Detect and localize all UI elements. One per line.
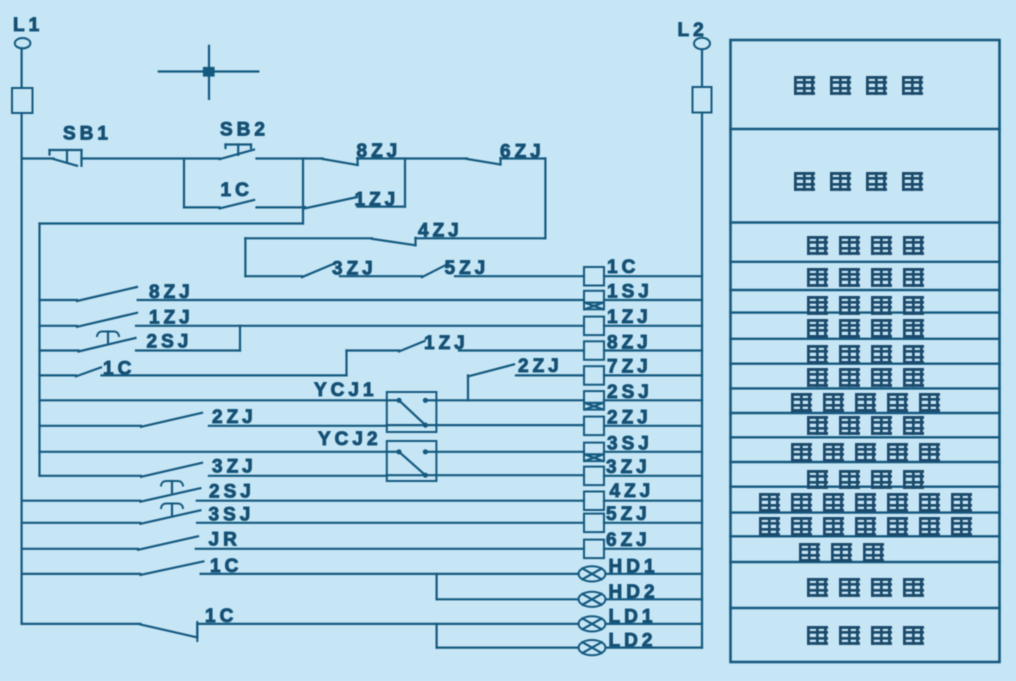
crosshair cursor mark [159,70,258,72]
time-delay marker of coil 3SJ [585,453,604,455]
fuse FU2 on L2 rail [693,87,712,113]
wire 2SJ short rung from rail2 [40,349,79,351]
wire vertical 4ZJ rung to 3ZJ-5ZJ rung [244,238,246,276]
delay actuator of 2SJ contact [97,332,119,337]
wire 1C lamp rung from L1 rail [22,573,141,575]
wire coil 3SJ to L2 rail [604,451,702,453]
wire rung1 SB1 to SB2 [82,157,220,159]
wire 2ZJ contact to YCJ1 box [209,425,387,427]
contact 8ZJ (NC) blade [323,159,358,165]
contact 4ZJ (NC) blade [372,239,416,246]
contact 3ZJ rung (NO) blade [141,463,202,477]
contact 8ZJ rung 1SJ (NO) blade [77,287,137,301]
YCJ1 internal lower wire [387,424,426,426]
table row separator 1 [731,128,1000,130]
table row separator 15 [731,561,1000,563]
wire coil 4ZJ to L2 rail [604,500,702,502]
YCJ2 terminal dots and blade [396,449,401,454]
indicator lamp HD2 [579,592,606,607]
wire 1C rung from rail2 [40,374,77,376]
wire 1ZJ branch resumed [358,206,406,208]
wire coil 2SJ to L2 rail [604,399,702,401]
table row separator 13 [731,511,1000,513]
contact 1C rung lower (NO) blade [76,367,101,376]
table text 油压低延时停车 [731,493,1000,512]
relay coil 6ZJ [584,540,604,559]
wire 3ZJ contact to YCJ2 box [209,475,387,477]
wire bottom 1C rung from L1 rail corner [22,623,141,625]
wire coil 3ZJ to L2 rail [604,475,702,477]
table text 水压低延时停车 [731,517,1000,536]
table text 延时断开 [731,345,1000,364]
wire lamp LD2 to L2 rail [606,646,703,648]
delay actuator of 3SJ delay contact [161,504,183,509]
table text 水压保护 [731,268,1000,287]
YCJ2 internal input wire [387,451,399,453]
table row separator 7 [731,363,1000,365]
indicator lamp HD1 [579,566,606,581]
wire vertical branch after SB1 down to 1C contact [183,159,185,208]
wire 5ZJ contact to coil 1C [455,275,584,277]
time-delay marker of coil 2SJ [585,402,604,404]
wire 2SJ delay rung from L1 rail [22,500,141,502]
wire 1ZJ rung from rail2 [40,325,78,327]
contact 2ZJ sub (NO) blade [468,364,514,376]
relay coil 8ZJ [584,341,604,360]
table row separator 4 [731,289,1000,291]
wire 3ZJ-5ZJ rung start [245,275,302,277]
contact JR thermal (NO) blade [138,536,198,550]
wire vertical 1ZJ branch up to rung1 [404,159,406,207]
table row separator 8 [731,387,1000,389]
pushbutton SB1 (NC) riser and actuator [80,150,82,166]
wire 2SJ delay contact to coil 4ZJ [197,500,584,502]
wire coil 5ZJ to L2 rail [604,522,702,524]
terminal L2 [694,38,710,50]
relay coil 5ZJ [584,514,604,533]
wire coil 8ZJ to L2 rail [604,349,702,351]
svg-text:3ZJ: 3ZJ [212,457,257,478]
wire rung1 6ZJ to right corner [501,157,546,159]
wire vertical riser from YCJ1 rung to 2ZJ sub-contact [467,375,469,400]
table row separator 3 [731,261,1000,263]
table row separator 12 [731,486,1000,488]
YCJ2 output wire upper [425,451,436,453]
wire branch to lamp LD2 [437,646,579,648]
wire 3SJ delay contact to coil 5ZJ [197,522,584,524]
table text 热保护 [707,543,976,562]
table text 水压正常 [731,470,1000,489]
table row separator 6 [731,338,1000,340]
wire coil 1ZJ to L2 rail [604,325,702,327]
time-delay marker of coil 1SJ [585,302,604,304]
table text 油压报警 [731,368,1000,387]
svg-text:2ZJ: 2ZJ [518,356,563,377]
svg-text:2SJ: 2SJ [209,482,255,503]
wire 1ZJ sub-rung start [347,349,400,351]
table row separator 2 [731,221,1000,223]
wire 2SJ short rung to junction [136,349,240,351]
relay coil 1SJ [584,291,604,310]
contact 1C bottom (NC) riser [196,623,198,637]
svg-text:1C: 1C [221,180,253,201]
wire vertical rung1 right down to 4ZJ rung [544,159,546,239]
svg-text:JR: JR [209,530,241,551]
wire coil 7ZJ to L2 rail [604,374,702,376]
pushbutton SB2 actuator [226,143,252,145]
wire lamp HD1 to L2 rail [606,573,703,575]
contact 1C bottom (NC) blade [140,624,197,637]
pressure switch YCJ1 box [387,392,437,432]
wire 1ZJ contact to coil 1ZJ [136,325,584,327]
relay coil 1ZJ [584,317,604,336]
svg-text:SB2: SB2 [220,120,269,141]
wire vertical riser 1C rung to 1ZJ sub-rung [345,351,347,376]
wire 2ZJ sub-rung to coil 7ZJ [516,374,584,376]
wire coil 1SJ to L2 rail [604,299,702,301]
wire 2ZJ rung from rail2 [40,425,142,427]
contact 1ZJ sub (NO) blade [399,341,425,352]
table row separator 10 [731,436,1000,438]
contact 1ZJ rung coil (NO) blade [77,313,137,327]
table row separator 14 [731,535,1000,537]
relay coil 2SJ [584,391,604,410]
YCJ2 output wire lower to coil 3ZJ [425,474,584,476]
contact 5ZJ rung5 (NO) blade [422,264,449,278]
wire coil 6ZJ to L2 rail [604,548,702,550]
wire rung1 from L1 rail to SB1 [22,157,54,159]
wire 1ZJ sub-rung to coil 8ZJ [459,349,584,351]
wire vertical branch to HD2 row [436,574,438,599]
wire rung1 SB2 to 8ZJ contact [257,157,323,159]
wire 1ZJ holding branch start [303,206,305,208]
svg-text:2SJ: 2SJ [147,332,193,353]
table text 水压低延时 [731,443,1000,462]
contact 3SJ delay (NO) blade [140,510,200,524]
table row separator 5 [731,311,1000,313]
wire 1SJ rung from rail2 [40,299,78,301]
contact 4ZJ (NC) riser [414,238,416,246]
table text 油压低延时 [731,393,1000,412]
pushbutton SB1 (NC) blade [54,159,78,166]
table text 油压保护 [731,236,1000,255]
indicator lamp LD1 [579,616,606,631]
indicator lamp LD2 [579,640,606,655]
table text 运行指示 [731,578,1000,597]
wire between 3ZJ and 5ZJ contacts [340,275,422,277]
pressure switch YCJ2 box [387,441,437,481]
svg-text:L2: L2 [678,20,708,41]
wire 1C branch to node A [257,206,304,208]
table row separator 16 [731,607,1000,609]
wire vertical junction 2SJ rung up to 1ZJ rung [239,326,241,351]
svg-text:L1: L1 [13,15,43,36]
wire lamp HD2 to L2 rail [606,598,703,600]
wire JR rung from L1 rail [22,548,138,550]
wire 4ZJ rung left part [245,237,372,239]
wire lamp LD1 to L2 rail [606,623,703,625]
relay coil 3SJ [584,443,604,462]
annotation table frame [731,40,1000,662]
YCJ2 internal lower wire [387,474,426,476]
wire 3ZJ rung from rail2 [40,475,142,477]
wire JR contact to coil 6ZJ [196,548,584,550]
YCJ1 terminal dots and blade [396,398,401,403]
relay coil 3ZJ [584,467,604,486]
contact 6ZJ (NC) riser [499,158,501,165]
YCJ1 output wire upper [425,399,436,401]
pushbutton SB2 (NO) blade [220,150,254,160]
wire 1C branch horizontal [184,206,220,208]
table text 油压正常 [731,416,1000,435]
wire left rail 2 (sub-rail) [38,224,40,476]
wire 1C bottom contact to lamp LD1 [199,623,579,625]
relay coil 4ZJ [584,492,604,511]
svg-text:1C: 1C [607,257,639,278]
svg-text:YCJ2: YCJ2 [318,429,382,450]
wire coil 2ZJ to L2 rail [604,425,702,427]
wire branch to lamp HD2 [437,598,579,600]
table text 起动延时 [731,296,1000,315]
contact 8ZJ (NC) riser [357,158,359,165]
wire 4ZJ rung right part [416,237,546,239]
contact 6ZJ (NC) blade [467,159,501,165]
table text 启动完毕 [731,319,1000,338]
wire 1C contact to lamp HD1 [201,573,579,575]
wire YCJ1 rung from rail2 [40,399,387,401]
wire rung1 8ZJ to 6ZJ contact [357,157,467,159]
wire connector from node A to left rail 2 [40,222,304,224]
table text 控制保险 [724,76,993,95]
table text 起动回路 [724,172,993,191]
wire YCJ2 to coil 3SJ [436,451,584,453]
svg-text:4ZJ: 4ZJ [610,481,655,502]
contact 3ZJ rung5 (NO) blade [302,264,334,278]
fuse FU1 on L1 rail [12,88,33,113]
delay actuator of 2SJ delay contact [161,481,183,486]
wire YCJ1 to coil 2SJ [436,399,584,401]
table row separator 11 [731,461,1000,463]
wire 3SJ rung from rail2 [40,451,387,453]
relay coil 1C [584,267,604,286]
YCJ1 internal input wire [387,399,399,401]
relay coil 2ZJ [584,417,604,436]
node A vertical junction from rung1 [302,159,304,224]
contact 1C holding (NO) blade [220,200,255,209]
wire L2 rail (right vertical supply rail) [701,49,703,647]
contact 1ZJ holding (NO) blade [304,197,357,209]
wire 8ZJ contact to coil 1SJ [138,299,584,301]
table text 电源指示 [731,626,1000,645]
wire 3SJ delay rung from L1 rail [22,522,141,524]
wire L1 rail (left vertical supply rail) [21,48,23,624]
svg-text:YCJ1: YCJ1 [314,380,378,401]
contact 2ZJ rung (NO) blade [141,413,202,427]
contact 2SJ short rung (NO) blade [79,338,136,352]
relay coil 7ZJ [584,366,604,385]
table row separator 9 [731,412,1000,414]
terminal L1 [15,38,31,48]
wire 1C contact to vertical riser [102,374,347,376]
contact 2SJ delay (NO) blade [140,488,200,502]
wire coil 1C to L2 rail [604,275,702,277]
svg-text:SB1: SB1 [63,124,112,145]
wire vertical branch to LD2 row [436,624,438,648]
contact 1C lamp rung (NO) blade [140,561,203,575]
YCJ1 output wire lower to coil 2ZJ [425,424,584,426]
